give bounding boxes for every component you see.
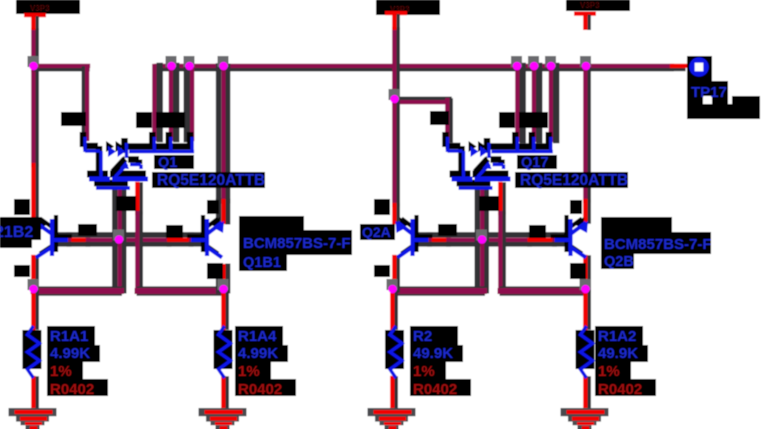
svg-text:R0402: R0402 [238, 381, 282, 398]
svg-text:V3P3: V3P3 [580, 1, 600, 10]
svg-text:Q2A: Q2A [362, 224, 391, 240]
svg-text:Q2B: Q2B [604, 254, 634, 270]
svg-text:TP17: TP17 [691, 84, 727, 101]
svg-text:R1A1: R1A1 [50, 328, 88, 345]
svg-text:R0402: R0402 [50, 381, 94, 398]
svg-text:1%: 1% [413, 363, 435, 380]
svg-text:49.9K: 49.9K [413, 345, 453, 362]
svg-text:1%: 1% [598, 363, 620, 380]
svg-text:1%: 1% [50, 363, 72, 380]
svg-text:4.99K: 4.99K [50, 345, 90, 362]
svg-text:BCM857BS-7-F: BCM857BS-7-F [243, 235, 351, 252]
svg-text:RQ5E120ATTB: RQ5E120ATTB [157, 172, 265, 189]
svg-text:49.9K: 49.9K [598, 345, 638, 362]
svg-text:21B2: 21B2 [0, 224, 33, 241]
svg-text:BCM857BS-7-F: BCM857BS-7-F [604, 236, 712, 253]
svg-text:R1A4: R1A4 [238, 328, 277, 345]
svg-text:4.99K: 4.99K [238, 345, 278, 362]
svg-text:Q17: Q17 [521, 155, 548, 171]
svg-text:R2: R2 [413, 328, 432, 345]
svg-text:Q1B1: Q1B1 [243, 255, 281, 271]
svg-text:R0402: R0402 [598, 381, 642, 398]
svg-text:V3P3: V3P3 [30, 4, 50, 13]
svg-text:R1A2: R1A2 [598, 328, 636, 345]
svg-text:1%: 1% [238, 363, 260, 380]
svg-text:R0402: R0402 [413, 381, 457, 398]
svg-text:RQ5E120ATTB: RQ5E120ATTB [520, 172, 628, 189]
svg-text:Q1: Q1 [158, 155, 177, 171]
